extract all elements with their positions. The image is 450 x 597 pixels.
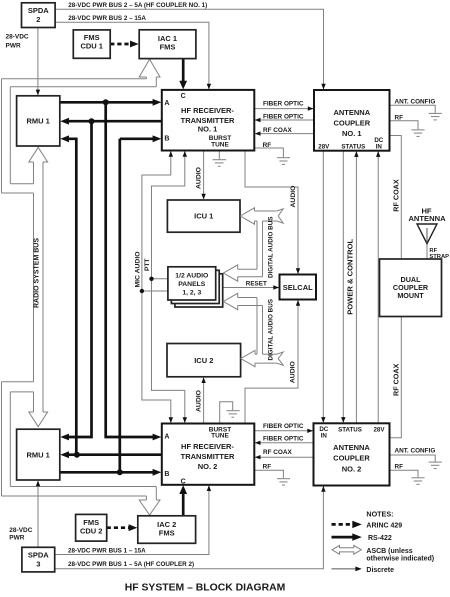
svg-text:28-VDC: 28-VDC [9,527,32,534]
wire 28-VDC PWR SPDA3 to RMU1 bottom [37,481,39,547]
dual coupler mount box [380,259,442,317]
wire xmtr2 to RMU1 bottom [68,453,162,456]
svg-text:FMS: FMS [160,43,176,52]
svg-text:PWR: PWR [9,535,24,542]
arrowhead status into coupler1 [354,151,358,157]
svg-text:28-VDC PWR BUS 2 – 15A: 28-VDC PWR BUS 2 – 15A [68,15,146,22]
wire PTT [152,152,185,423]
svg-text:PANELS: PANELS [178,281,206,288]
svg-text:IN: IN [376,143,383,150]
arrowhead into xmtr1 bottom MIC [169,151,173,157]
arrowhead into ICU2 bottom [201,377,205,383]
wire FIBER OPTIC xmtr1 to coupler1 [254,108,313,110]
svg-text:28V: 28V [318,143,330,150]
svg-text:RESET: RESET [246,280,267,287]
wire RF COAX coupler2 to xmtr2 [255,456,313,458]
svg-text:ICU 1: ICU 1 [194,212,213,221]
svg-text:RF: RF [263,463,272,470]
arrowhead dc-in into coupler1 [376,151,380,157]
svg-text:28-VDC: 28-VDC [6,34,29,41]
wire ARINC 429 FMS CDU2 to IAC2 [107,526,130,529]
svg-text:NO. 2: NO. 2 [342,464,362,473]
IAC 2 box [138,516,196,544]
arrowhead into xmtr2 bottom [207,485,211,491]
ground coupler2 RF [411,478,424,485]
svg-text:SELCAL: SELCAL [283,283,313,292]
wire AUDIO transmitter1 to SELCAL [245,151,298,274]
svg-text:STRAP: STRAP [429,254,449,260]
svg-text:SPDA: SPDA [28,6,49,15]
audio panels stack boxes [175,274,223,307]
digital audio bus vertical ICU1 to panels [238,221,263,277]
svg-text:Discrete: Discrete [366,567,394,574]
SPDA 2 box [22,3,56,28]
wire RESET audio panels to SELCAL [223,287,279,289]
wire 28-VDC PWR SPDA2 to RMU1 top [37,28,39,96]
svg-text:ASCB (unless: ASCB (unless [366,548,412,555]
arrowhead RMU1 bottom in1 [60,434,69,441]
HF antenna symbol [417,224,437,244]
svg-text:28-VDC PWR BUS 2 – 5A (HF COUP: 28-VDC PWR BUS 2 – 5A (HF COUPLER NO. 1) [68,2,207,9]
junction node RMU1-top-out [103,99,109,105]
svg-text:RF COAX: RF COAX [392,363,401,396]
svg-text:RF: RF [395,463,404,470]
svg-text:FMS: FMS [84,33,100,42]
ASCB arrowhead into IAC2 top [139,500,160,515]
arrowhead IAC2 to xmtr2 C [179,485,187,494]
wire riser xmtr1-out down [68,121,92,437]
svg-text:AUDIO: AUDIO [290,186,297,208]
ASCB arrowhead into IAC1 bottom [139,59,160,77]
arrowhead into coupler1 top [321,84,325,90]
wire 28-VDC PWR BUS 2 - 15A to transmitter 1 [55,22,209,89]
wire AUDIO transmitter1 to ICU1 [203,151,205,200]
junction node xmtr2-out [74,452,80,458]
wire FIBER OPTIC coupler2 to xmtr2 [255,442,313,444]
svg-text:COUPLER: COUPLER [333,119,370,128]
svg-text:28-VDC PWR BUS 1 – 5A (HF COU: 28-VDC PWR BUS 1 – 5A (HF COUPLER 2) [68,561,194,568]
arrowhead fiber optic into coupler2 [307,429,313,433]
svg-text:28-VDC PWR BUS 1 – 15A: 28-VDC PWR BUS 1 – 15A [68,547,146,554]
RMU 1 top box [17,96,60,146]
ground xmtr2 case [220,402,233,424]
svg-text:C: C [181,478,186,485]
svg-text:IAC 1: IAC 1 [158,34,177,43]
arrowhead fiber optic into xmtr1 [255,118,261,122]
svg-text:NO. 1: NO. 1 [342,129,362,138]
svg-text:FMS: FMS [159,529,175,538]
svg-text:RS-422: RS-422 [368,535,392,542]
ICU 1 box [167,200,240,232]
svg-text:AUDIO: AUDIO [196,390,203,412]
arrowhead RESET into SELCAL [273,285,279,289]
arrowhead into SELCAL bottom [296,300,300,306]
svg-text:RF: RF [395,114,404,121]
legend RS-422 symbol [332,536,354,539]
svg-text:1, 2, 3: 1, 2, 3 [182,290,201,297]
wire xmtr2 out riser to RMU1 top [68,139,77,455]
svg-text:DIGITAL AUDIO BUS: DIGITAL AUDIO BUS [268,299,275,360]
wire MIC AUDIO to audio panels [142,290,168,292]
IAC 1 box [139,30,196,59]
svg-text:TRANSMITTER: TRANSMITTER [181,452,235,461]
svg-text:NO. 1: NO. 1 [198,124,218,133]
svg-text:TUNE: TUNE [211,142,229,149]
svg-text:RMU 1: RMU 1 [27,117,50,126]
ground xmtr1 case [218,151,220,160]
wire PTT to audio panels [152,278,168,280]
junction node PTT [149,277,153,281]
svg-text:AUDIO: AUDIO [290,361,297,383]
wire FIBER OPTIC coupler1 to xmtr1 [255,119,314,121]
svg-text:RF: RF [263,142,272,149]
antenna coupler no. 1 box [314,90,390,151]
wire HF antenna lead [426,224,428,259]
wire riser RMU1-top-out down to xmtr2 A [106,102,154,437]
svg-text:FMS: FMS [83,518,99,527]
svg-text:RF COAX: RF COAX [263,127,292,134]
ground xmtr2 RF [277,479,290,485]
svg-text:MOUNT: MOUNT [397,291,424,300]
SELCAL box [280,275,317,300]
arrowhead fiber optic into xmtr2 [255,441,261,445]
HF receiver-transmitter no. 2 box [162,424,255,485]
svg-text:IN: IN [321,433,328,440]
wire 28-VDC PWR BUS 1 - 5A to coupler 2 [55,487,324,569]
svg-text:RF COAX: RF COAX [392,179,401,212]
svg-text:1/2 AUDIO: 1/2 AUDIO [175,272,208,279]
svg-text:COUPLER: COUPLER [333,454,370,463]
wire AUDIO transmitter2 to ICU2 [203,378,205,424]
wire RF COAX coupler1 to xmtr1 [255,133,314,135]
ASCB bus IAC1-to-left-frame outline [2,77,157,193]
arrowhead rf coax into xmtr2 [255,455,261,459]
legend Discrete symbol [332,568,357,570]
svg-text:A: A [164,100,169,107]
svg-text:ANTENNA: ANTENNA [333,108,370,117]
wire ARINC 429 FMS CDU1 to IAC1 [110,43,131,46]
svg-text:POWER & CONTROL: POWER & CONTROL [346,239,355,315]
svg-text:RADIO SYSTEM BUS: RADIO SYSTEM BUS [34,238,41,308]
wire 28-VDC PWR BUS 1 - 15A to transmitter 2 [55,486,209,555]
svg-text:IAC 2: IAC 2 [157,520,176,529]
svg-text:NOTES:: NOTES: [366,509,393,518]
junction node MIC AUDIO [140,289,144,293]
ground coupler2 ant config [429,462,442,469]
wire RF coupler1 to ground [390,121,419,130]
FMS CDU 1 box [73,30,110,58]
wire IAC1 to xmtr1 C [182,59,185,82]
svg-text:HF RECEIVER-: HF RECEIVER- [181,442,234,451]
digital audio bus vertical panels to ICU2 [238,298,263,355]
wire RF xmtr2 to ground [254,470,283,478]
svg-text:B: B [164,136,169,143]
arrowhead fiber optic into coupler1 [308,106,314,110]
svg-text:CDU 1: CDU 1 [80,42,103,51]
svg-text:28V: 28V [373,427,385,434]
svg-text:NO. 2: NO. 2 [198,462,218,471]
svg-text:FIBER OPTIC: FIBER OPTIC [263,435,304,442]
arrowhead xmtr1 B [153,135,162,142]
arrowhead xmtr1 A [153,99,162,106]
svg-text:FIBER OPTIC: FIBER OPTIC [263,423,304,430]
wire IAC2 to xmtr2 C [182,493,185,516]
ASCB arrow into audio panels upper [223,265,237,281]
wire xmtr1 to RMU1 [68,120,162,123]
antenna coupler no. 2 box [314,423,390,485]
svg-text:HF RECEIVER-: HF RECEIVER- [181,106,234,115]
arrowhead into coupler2 bottom [321,486,325,492]
arrowhead xmtr2 B [153,469,162,476]
svg-text:ANTENNA: ANTENNA [333,443,370,452]
ICU 2 box [167,344,241,377]
svg-text:RMU 1: RMU 1 [27,450,50,459]
wire RMU1 bottom to xmtr2 B [60,471,154,474]
wire RF COAX coupler1 to dual coupler mount [390,136,402,259]
arrowhead ARINC into IAC1 [130,41,139,48]
wire MIC AUDIO [142,152,171,423]
wire 28-VDC PWR BUS 2 - 5A to coupler 1 [55,9,323,89]
arrowhead ARINC into IAC2 [129,524,138,531]
junction node xmtr1-out [89,118,95,124]
wire ANT. CONFIG coupler2 to ground [390,455,436,462]
arrowhead into RMU1 top [36,90,40,96]
svg-text:STATUS: STATUS [338,427,362,434]
svg-text:2: 2 [36,15,40,24]
svg-text:ICU 2: ICU 2 [194,356,213,365]
wire FIBER OPTIC xmtr2 to coupler2 [254,430,312,432]
ASCB arrow into audio panels lower [223,293,237,309]
wire coupler1 28V to coupler2 DC IN [322,151,324,423]
legend ASCB symbol [332,545,361,554]
RADIO SYSTEM BUS double-headed outlined arrow [34,162,44,412]
wire RF xmtr1 to ground [254,148,283,157]
arrowhead RMU1 bottom in2 [60,451,69,458]
arrowhead into ICU1 top [201,194,205,200]
FMS CDU 2 box [76,514,107,541]
junction node RMU1-bottom-out [117,469,123,475]
arrowhead RMU1 top in1 [60,118,69,125]
svg-text:AUDIO: AUDIO [196,167,203,189]
wire power and control line b [355,152,357,424]
SPDA 3 box [22,547,55,572]
svg-text:FIBER OPTIC: FIBER OPTIC [263,114,304,121]
ground coupler1 RF [411,130,424,137]
wire RF COAX dual coupler mount to coupler2 [390,317,402,438]
svg-text:PTT: PTT [144,259,151,271]
arrowhead rf coax into xmtr1 [255,131,261,135]
svg-text:A: A [164,433,169,440]
arrowhead IAC1 to xmtr1 C [179,81,187,90]
wire power and control line a [342,151,344,423]
wire AUDIO transmitter2 to SELCAL [245,301,298,424]
svg-text:TUNE: TUNE [211,433,229,440]
wire RMU1 to xmtr1 A [60,101,154,104]
svg-text:otherwise indicated): otherwise indicated) [366,555,434,562]
arrowhead into xmtr1 bottom PTT [183,151,187,157]
svg-text:FIBER OPTIC: FIBER OPTIC [263,100,304,107]
svg-text:MIC AUDIO: MIC AUDIO [134,252,141,288]
wire riser RMU1-bottom-out up to xmtr1 B [118,139,121,473]
arrowhead into xmtr2 top PTT [183,417,187,423]
svg-text:STATUS: STATUS [341,143,365,150]
ground coupler1 ant config [429,113,442,120]
svg-text:3: 3 [36,559,40,568]
wire ANT. CONFIG coupler1 to ground [390,105,436,113]
svg-text:ANT. CONFIG: ANT. CONFIG [395,98,436,105]
arrowhead into SELCAL top [296,268,300,274]
arrowhead into xmtr2 top MIC [169,417,173,423]
svg-text:SPDA: SPDA [28,550,49,559]
arrowhead into RMU1 bottom [36,481,40,487]
svg-text:DIGITAL AUDIO BUS: DIGITAL AUDIO BUS [268,217,275,278]
arrowhead RMU1 top in2 [60,135,69,142]
wire coupler2 28V to coupler1 DC IN [377,152,379,424]
RMU 1 bottom box [17,429,60,480]
svg-text:ANTENNA: ANTENNA [408,214,446,223]
svg-text:C: C [181,93,186,100]
wire RF coupler2 to ground [390,470,419,477]
svg-text:ARINC 429: ARINC 429 [366,522,402,529]
HF receiver-transmitter no. 1 box [162,90,255,151]
svg-text:HF SYSTEM – BLOCK DIAGRAM: HF SYSTEM – BLOCK DIAGRAM [125,583,285,594]
svg-text:B: B [164,471,169,478]
legend ARINC 429 symbol [332,523,354,526]
ASCB bus left-frame-to-IAC2 outline [2,382,157,500]
ASCB arrow into ICU2 [241,350,284,366]
arrowhead into xmtr1 top [207,84,211,90]
ground xmtr1 RF [277,158,290,165]
svg-text:PWR: PWR [6,43,21,50]
svg-text:RF COAX: RF COAX [263,449,292,456]
arrowhead dc-in into coupler2 [321,417,325,423]
wire RMU1 bottom out to xmtr1 B riser [120,137,154,140]
ASCB arrow into ICU1 [240,208,283,224]
svg-text:ANT. CONFIG: ANT. CONFIG [395,447,436,454]
arrowhead status into coupler2 [341,417,345,423]
svg-text:CDU 2: CDU 2 [80,527,103,536]
arrowhead xmtr2 A [153,434,162,441]
